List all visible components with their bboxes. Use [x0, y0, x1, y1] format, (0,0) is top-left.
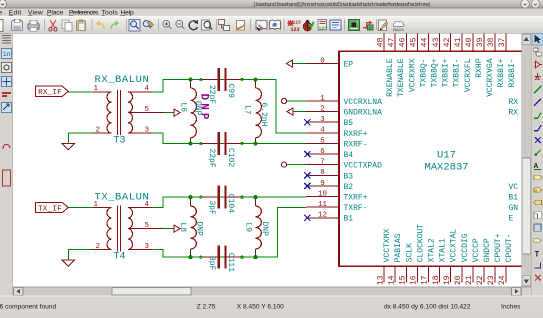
svg-text:TX_BALUN: TX_BALUN: [95, 191, 150, 203]
svg-text:3pF: 3pF: [207, 201, 216, 216]
svg-text:DNP: DNP: [194, 222, 203, 237]
svg-text:B1: B1: [509, 193, 519, 202]
svg-text:XTAL2: XTAL2: [428, 238, 437, 262]
svg-text:RXHP: RXHP: [475, 58, 484, 77]
svg-text:T3: T3: [114, 136, 126, 147]
svg-text:13: 13: [376, 275, 385, 285]
svg-text:6.2nH: 6.2nH: [259, 103, 268, 127]
svg-text:TXBBQ+: TXBBQ+: [431, 58, 440, 87]
svg-text:43: 43: [432, 37, 441, 47]
svg-text:46: 46: [399, 37, 408, 47]
svg-text:11: 11: [318, 201, 328, 209]
svg-text:RXRF-: RXRF-: [344, 140, 368, 149]
svg-text:VCCRXFL: VCCRXFL: [464, 58, 473, 92]
svg-text:C111: C111: [226, 253, 235, 272]
svg-text:CLOCKOUT: CLOCKOUT: [416, 224, 425, 263]
svg-text:18: 18: [432, 275, 441, 285]
svg-text:TXENABLE: TXENABLE: [397, 58, 406, 97]
svg-text:SCLK: SCLK: [405, 243, 414, 262]
svg-text:23: 23: [487, 275, 496, 285]
svg-text:L9: L9: [243, 223, 252, 233]
svg-text:VCCRXMX: VCCRXMX: [408, 58, 417, 92]
svg-text:C104: C104: [226, 194, 235, 213]
svg-text:1: 1: [320, 95, 325, 103]
svg-text:RXRF+: RXRF+: [344, 130, 368, 139]
svg-text:GNDRXLNA: GNDRXLNA: [344, 109, 383, 118]
svg-text:4: 4: [145, 201, 150, 209]
svg-text:44: 44: [421, 37, 430, 47]
svg-text:n: n: [369, 26, 372, 31]
svg-text:4: 4: [320, 127, 325, 135]
svg-text:26 component found: 26 component found: [0, 304, 56, 311]
svg-text:DNP: DNP: [197, 94, 209, 123]
svg-text:40: 40: [465, 37, 474, 47]
svg-text:1: 1: [94, 201, 99, 209]
svg-text:Z 2.75: Z 2.75: [197, 304, 216, 311]
svg-text:Inches: Inches: [501, 304, 521, 311]
svg-text:View: View: [28, 10, 43, 17]
svg-text:TXRF+: TXRF+: [344, 194, 368, 203]
svg-text:37: 37: [498, 37, 507, 47]
svg-text:CPOUT+: CPOUT+: [494, 233, 503, 262]
svg-text:C102: C102: [226, 148, 235, 167]
svg-text:Tools: Tools: [102, 10, 119, 17]
svg-text:RXBBI-: RXBBI-: [508, 59, 517, 88]
svg-text:5: 5: [145, 222, 150, 230]
svg-text:3: 3: [145, 243, 150, 251]
svg-text:5: 5: [320, 137, 325, 145]
svg-text:22pF: 22pF: [207, 149, 216, 168]
svg-text:2: 2: [96, 127, 101, 135]
svg-text:15: 15: [399, 275, 408, 285]
svg-text:Edit: Edit: [9, 10, 22, 17]
svg-text:RXENABLE: RXENABLE: [386, 58, 395, 97]
svg-text:B5: B5: [344, 119, 354, 128]
svg-text:3: 3: [320, 116, 325, 124]
svg-text:PABIAS: PABIAS: [394, 233, 403, 262]
svg-text:17: 17: [421, 275, 430, 285]
svg-text:RXBBI+: RXBBI+: [497, 58, 506, 87]
svg-text:TXBBI-: TXBBI-: [453, 59, 462, 88]
svg-text:45: 45: [410, 37, 419, 47]
svg-text:8: 8: [320, 169, 325, 177]
svg-text:39: 39: [476, 37, 485, 47]
svg-text:TXBBQ-: TXBBQ-: [419, 59, 428, 88]
svg-text:6: 6: [320, 148, 325, 156]
svg-text:RX_BALUN: RX_BALUN: [95, 74, 150, 86]
svg-text:VCCXTAL: VCCXTAL: [450, 228, 459, 262]
svg-text:2: 2: [320, 105, 325, 113]
svg-text:21: 21: [465, 275, 474, 285]
svg-text:3: 3: [145, 127, 150, 135]
svg-text:B3: B3: [344, 172, 354, 181]
svg-text:Place: Place: [47, 10, 64, 17]
svg-text:B2: B2: [344, 183, 354, 192]
svg-text:B4: B4: [344, 151, 354, 160]
svg-text:T: T: [535, 250, 540, 259]
svg-text:RX_IF: RX_IF: [38, 89, 62, 97]
svg-text:BACK: BACK: [393, 27, 404, 32]
svg-text:X 8.450 Y 6.100: X 8.450 Y 6.100: [237, 304, 284, 311]
svg-text:48: 48: [376, 37, 385, 47]
svg-text:GNDCP: GNDCP: [483, 238, 492, 262]
svg-text:VCCRXLNA: VCCRXLNA: [344, 98, 383, 107]
svg-text:VCCTXPAD: VCCTXPAD: [344, 162, 383, 171]
svg-text:9: 9: [320, 180, 325, 188]
svg-text:47: 47: [387, 37, 396, 47]
svg-text:5: 5: [145, 106, 150, 114]
svg-text:RX: RX: [509, 98, 519, 107]
svg-text:L6: L6: [178, 103, 187, 113]
svg-text:41: 41: [454, 37, 463, 47]
svg-text:C99: C99: [226, 84, 235, 99]
svg-text:L8: L8: [178, 223, 187, 233]
svg-text:DNP: DNP: [260, 222, 269, 237]
svg-text:VCCTXMX: VCCTXMX: [383, 228, 392, 262]
svg-text:2: 2: [96, 243, 101, 251]
svg-text:VC: VC: [509, 183, 519, 192]
svg-text:VCCDIG: VCCDIG: [461, 233, 470, 262]
svg-text:4: 4: [145, 85, 150, 93]
svg-text:U17: U17: [437, 150, 456, 162]
svg-text:12: 12: [318, 212, 327, 220]
svg-text:123: 123: [291, 27, 300, 33]
svg-text:10: 10: [318, 190, 328, 198]
svg-text:E: E: [509, 215, 514, 224]
svg-text:Help: Help: [121, 10, 135, 17]
svg-text:TXRF-: TXRF-: [344, 204, 368, 213]
svg-text:GN: GN: [509, 204, 519, 213]
svg-text:16: 16: [410, 275, 419, 285]
svg-text:19: 19: [443, 275, 452, 285]
svg-text:File: File: [0, 10, 2, 17]
svg-text:24: 24: [498, 275, 507, 285]
svg-text:VCCRXVGA: VCCRXVGA: [486, 58, 495, 97]
svg-text:EP: EP: [344, 61, 354, 70]
svg-text:XTAL1: XTAL1: [439, 238, 448, 262]
svg-text:CPOUT-: CPOUT-: [505, 233, 514, 262]
svg-text:14: 14: [387, 275, 396, 285]
svg-text:38: 38: [487, 37, 496, 47]
svg-text:TX_IF: TX_IF: [38, 205, 62, 213]
svg-text:123: 123: [293, 20, 302, 26]
svg-text:0: 0: [320, 57, 325, 65]
svg-text:TXBBI+: TXBBI+: [442, 58, 451, 87]
svg-text:1: 1: [94, 85, 99, 93]
svg-text:42: 42: [443, 37, 452, 47]
svg-text:7: 7: [320, 159, 325, 167]
svg-text:B1: B1: [344, 215, 354, 224]
svg-text:20: 20: [454, 275, 463, 285]
svg-text:A: A: [534, 163, 539, 171]
svg-text:RX: RX: [509, 109, 519, 118]
svg-text:T4: T4: [114, 251, 126, 262]
svg-text:MAX2837: MAX2837: [424, 162, 468, 174]
svg-text:3pF: 3pF: [207, 256, 216, 271]
svg-text:VCCCP: VCCCP: [472, 238, 481, 262]
svg-text:Preferences: Preferences: [69, 10, 99, 17]
svg-text:22: 22: [476, 275, 485, 285]
svg-text:dx 8.450 dy 6.100 dist 10.42: dx 8.450 dy 6.100 dist 10.422: [384, 304, 471, 311]
svg-text:L7: L7: [242, 105, 251, 115]
svg-text:[ baseband /baseband/] (/home/: [ baseband /baseband/] (/home/marcos/ufs…: [254, 2, 431, 8]
svg-text:in: in: [3, 51, 11, 58]
svg-text:123: 123: [319, 26, 328, 32]
